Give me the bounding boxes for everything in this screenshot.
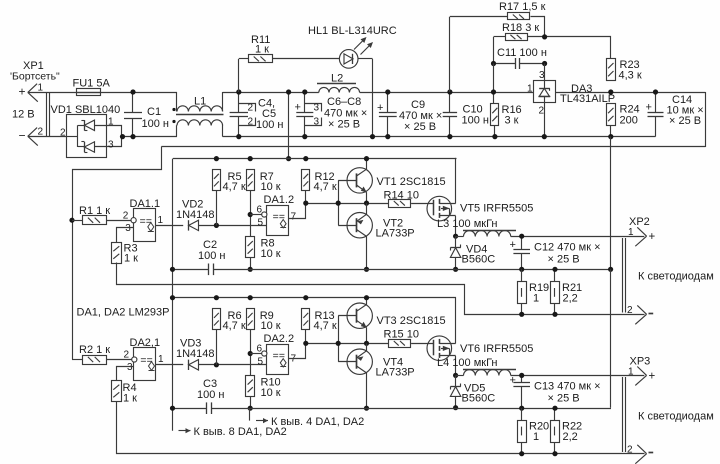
LED HL1 <box>339 50 358 69</box>
capacitor C3 <box>206 402 208 414</box>
wire R16 upper leg <box>493 64 495 104</box>
svg-text:1: 1 <box>628 227 634 238</box>
svg-text:1: 1 <box>108 117 114 128</box>
junction R10 bottom <box>248 406 253 411</box>
capacitor C6-C8 top tab <box>305 104 322 112</box>
wire R13 bottom leg <box>305 330 307 344</box>
diode VD2 <box>189 220 199 230</box>
XP3 polarity - label <box>649 452 654 454</box>
inductor L1 top winding <box>176 92 178 112</box>
XP2 pin 1 connector <box>637 227 646 236</box>
node К выв. 8 DA1, DA2 <box>179 430 191 432</box>
DA1.1 pin2 bubble <box>131 218 136 223</box>
wire VT1 emitter to node <box>366 192 368 203</box>
svg-text:К выв. 8 DA1, DA2: К выв. 8 DA1, DA2 <box>194 426 287 438</box>
resistor R17 <box>508 13 530 20</box>
wire R19 legs <box>521 269 523 281</box>
resistor R24 <box>607 104 616 126</box>
wire VD3 to DA2.2 pin5 <box>199 364 267 366</box>
transistor VT3 <box>347 303 372 328</box>
svg-text:100 н: 100 н <box>256 119 283 131</box>
capacitor C2 <box>208 264 210 276</box>
DA2.1 pin2 bubble <box>132 357 137 362</box>
op-amp DA3 body <box>534 81 556 103</box>
svg-text:2: 2 <box>248 116 254 127</box>
XP2 cable double line <box>622 238 624 313</box>
svg-text:DA1, DA2 LM293P: DA1, DA2 LM293P <box>77 307 170 319</box>
svg-text:10 к: 10 к <box>261 387 281 399</box>
inductor L1 phase dots <box>172 108 175 111</box>
svg-text:В560С: В560С <box>462 393 496 405</box>
svg-text:2: 2 <box>627 445 633 456</box>
svg-text:100 н: 100 н <box>142 118 169 130</box>
junction bus2 left <box>170 295 175 300</box>
resistor R4 <box>112 381 122 402</box>
svg-text:R17 1,5 к: R17 1,5 к <box>499 1 546 13</box>
capacitor C10 <box>449 92 451 112</box>
wire gnd line channel1 <box>172 269 209 271</box>
svg-text:LA733P: LA733P <box>376 228 415 240</box>
wire DA1.2 pin6 <box>250 214 261 216</box>
fuse FU1 <box>77 89 101 96</box>
XP2 pin 2 connector <box>637 305 646 314</box>
wire R11 to HL1 <box>272 58 339 60</box>
diode VD3 <box>189 360 199 370</box>
junction base riser 2 <box>336 341 341 346</box>
svg-text:2: 2 <box>539 106 545 117</box>
wire R22 legs <box>554 408 556 420</box>
wire top rail (L1 to L2) <box>223 92 319 94</box>
wire L3 to XP2 plus <box>511 236 645 238</box>
junction C11 right <box>542 61 547 66</box>
svg-text:+: + <box>646 102 652 114</box>
wire VD1 pin3 stub <box>78 146 84 148</box>
svg-text:VT5 IRFR5505: VT5 IRFR5505 <box>460 203 533 215</box>
wire R24 bottom leg <box>610 126 612 137</box>
wire R7 to R8 <box>250 191 252 237</box>
svg-text:3: 3 <box>314 103 320 114</box>
resistor R5 <box>213 170 221 191</box>
wire +12V bus channel1 <box>173 158 456 160</box>
junction C6 bottom <box>302 134 307 139</box>
junction R12 top <box>303 156 308 161</box>
svg-text:4,7 к: 4,7 к <box>223 181 246 193</box>
svg-text:2,2: 2,2 <box>563 293 578 305</box>
svg-text:1: 1 <box>38 83 44 94</box>
wire VT2 emitter up <box>366 203 368 214</box>
DA2.2 output mark <box>280 359 286 367</box>
svg-text:1: 1 <box>158 354 164 365</box>
wire VT3 collector <box>366 298 368 305</box>
wire VT3-VT4 base riser <box>338 316 340 362</box>
junction R5 top <box>214 156 219 161</box>
resistor R21 <box>551 282 560 304</box>
junction VD4 anode <box>453 267 458 272</box>
svg-text:+: + <box>510 375 516 387</box>
wire R16 bottom leg <box>494 126 496 137</box>
svg-text:3: 3 <box>108 140 114 151</box>
svg-text:10 к: 10 к <box>261 248 281 260</box>
inductor L1 bottom winding <box>176 125 178 136</box>
wire DA2.1 output <box>156 364 183 366</box>
resistor R22 <box>551 421 560 443</box>
LED HL1 light arrows <box>354 39 365 50</box>
svg-text:1: 1 <box>533 431 539 443</box>
junction R20 bottom <box>519 451 524 456</box>
svg-text:× 25 В: × 25 В <box>328 119 360 131</box>
junction R9-R10 pin6 <box>248 351 253 356</box>
svg-text:6: 6 <box>257 344 263 355</box>
junction R17-R18 <box>542 34 547 39</box>
junction C12 bottom <box>519 267 524 272</box>
svg-text:С6–С8: С6–С8 <box>327 96 361 108</box>
inductor L2 core bar <box>317 83 356 85</box>
svg-text:L4 100 мкГн: L4 100 мкГн <box>437 357 498 369</box>
svg-text:FU1 5A: FU1 5A <box>73 78 111 90</box>
svg-text:HL1 BL-L314URC: HL1 BL-L314URC <box>308 25 397 37</box>
XP2 polarity - label <box>649 313 654 315</box>
wire sense right edge <box>705 92 707 147</box>
junction C4 bottom <box>236 134 241 139</box>
svg-text:==: == <box>140 356 153 368</box>
svg-text:==: == <box>140 216 153 228</box>
resistor R23 <box>607 59 616 81</box>
wire VT1 collector <box>366 159 368 170</box>
resistor R9 <box>247 309 255 330</box>
wire DA1.2 pin7 stub <box>289 204 306 219</box>
junction R1 tap <box>69 218 74 223</box>
wire R10 bottom leg <box>250 396 252 408</box>
wire R4 bottom to XP3 return <box>117 402 645 454</box>
resistor R7 <box>247 170 255 191</box>
junction gnd2-x172.5 <box>170 406 175 411</box>
resistor R14 <box>389 200 411 208</box>
wire gnd riser lower <box>610 269 612 407</box>
wire HL1 cathode down <box>358 58 373 60</box>
XP3 cable double line <box>622 377 624 452</box>
svg-text:10 к: 10 к <box>261 181 281 193</box>
wire VD5 anode leg <box>455 396 457 407</box>
transistor VT4 <box>347 349 372 374</box>
wire DA2.2 pin7 stub <box>289 344 306 359</box>
resistor R2 <box>83 356 107 365</box>
transistor VT6 <box>427 336 452 361</box>
wire VT3 emitter to node <box>366 328 368 344</box>
svg-text:3: 3 <box>314 116 320 127</box>
svg-text:−: − <box>19 129 26 143</box>
wire R1 left leg <box>72 220 83 222</box>
inductor L2 winding <box>319 87 360 92</box>
svg-text:C1: C1 <box>147 106 161 118</box>
resistor R1 <box>83 216 107 225</box>
svg-text:100 н: 100 н <box>197 389 224 401</box>
svg-text:1 к: 1 к <box>123 393 137 405</box>
capacitor C1 <box>132 92 134 112</box>
svg-text:VT1 2SC1815: VT1 2SC1815 <box>377 176 446 188</box>
wire top rail (DA3 right to corner) <box>555 92 706 94</box>
wire R12 bottom leg <box>305 191 307 204</box>
wire VT2 collector down <box>366 236 368 269</box>
op-amp DA2.2 body <box>267 345 289 375</box>
svg-text:4,7 к: 4,7 к <box>223 320 246 332</box>
diode VD1.2 (lower) <box>84 142 94 152</box>
svg-text:3 к: 3 к <box>505 115 519 127</box>
junction R21 top <box>552 267 557 272</box>
svg-text:× 25 В: × 25 В <box>669 115 701 127</box>
DA1.1 output mark <box>148 223 154 232</box>
junction R13-pin7 node <box>303 341 308 346</box>
svg-text:VT6 IRFR5505: VT6 IRFR5505 <box>460 343 533 355</box>
svg-text:4,3 к: 4,3 к <box>619 70 642 82</box>
svg-text:100 н: 100 н <box>198 250 225 262</box>
svg-text:12 В: 12 В <box>12 109 35 121</box>
svg-text:1: 1 <box>628 367 634 378</box>
wire VD1 pin2 entry <box>67 136 78 138</box>
DA2.1 output mark <box>149 362 155 371</box>
wire R18 right to R23 <box>528 37 611 59</box>
junction R23 bottom <box>608 89 613 94</box>
diode VD5 schottky <box>455 375 457 386</box>
svg-text:В560С: В560С <box>462 254 496 266</box>
svg-text:1: 1 <box>158 215 164 226</box>
svg-text:+: + <box>295 102 301 114</box>
svg-text:2: 2 <box>38 127 44 138</box>
svg-text:2: 2 <box>60 127 66 138</box>
svg-text:× 25 В: × 25 В <box>404 121 436 133</box>
svg-text:DA1.2: DA1.2 <box>264 194 295 206</box>
wire minus rail (XP1 to VD1) <box>28 136 67 138</box>
wire minus rail (VD1 out to L1) <box>123 136 178 138</box>
svg-text:2: 2 <box>124 350 130 361</box>
junction R7-R8 pin6 <box>248 212 253 217</box>
junction C10 bottom <box>447 134 452 139</box>
junction C10 top <box>447 89 452 94</box>
svg-text:7: 7 <box>291 212 297 223</box>
junction emitters node 2 <box>364 341 369 346</box>
svg-text:5: 5 <box>258 218 264 229</box>
svg-text:C12 470 мк ×: C12 470 мк × <box>534 242 601 254</box>
wire L4 to XP3 plus <box>511 375 645 377</box>
wire +12V top rail (XP1 to L1) <box>28 92 177 94</box>
resistor R16 <box>491 104 499 126</box>
svg-text:+: + <box>649 371 656 383</box>
resistor R8 <box>246 237 255 258</box>
svg-text:R18 3 к: R18 3 к <box>502 22 539 34</box>
junction R22 top <box>552 406 557 411</box>
wire R17 left leg <box>449 17 451 92</box>
transistor VT2 <box>347 213 372 238</box>
inductor L3 core bar <box>463 230 516 232</box>
junction DA3 pin2 minus rail <box>542 134 547 139</box>
junction C6 top <box>302 89 307 94</box>
capacitor C4 C5 <box>238 92 240 112</box>
resistor R18 <box>506 34 528 41</box>
svg-text:R15 10: R15 10 <box>384 329 419 341</box>
svg-text:3: 3 <box>539 70 545 81</box>
capacitor C4 C5 bottom tab <box>239 118 256 126</box>
junction R5 bottom <box>214 223 219 228</box>
svg-text:2: 2 <box>248 103 254 114</box>
wire L3 left stub <box>456 236 464 238</box>
node К выв. 4 DA1, DA2 <box>249 408 251 420</box>
svg-text:3: 3 <box>125 223 131 234</box>
wire sense horizontal y147 <box>161 146 705 148</box>
capacitor C14 <box>655 92 657 112</box>
wire R15 to VT6 gate <box>411 343 434 345</box>
diode VD1.1 (upper) <box>84 120 94 130</box>
svg-text:1 к: 1 к <box>255 44 269 56</box>
svg-text:4,7 к: 4,7 к <box>314 320 337 332</box>
wire R2 to DA2.1 pin2 <box>107 359 132 361</box>
junction R24 bottom <box>608 134 613 139</box>
junction VT6 drain node <box>453 373 458 378</box>
svg-text:1N4148: 1N4148 <box>176 348 215 360</box>
svg-text:VT3 2SC1815: VT3 2SC1815 <box>377 315 446 327</box>
junction R8 bottom <box>248 267 253 272</box>
junction R19 bottom <box>519 312 524 317</box>
wire +12V bus channel2 <box>173 297 454 299</box>
wire gnd line channel2 <box>172 408 207 410</box>
junction C9 top <box>385 89 390 94</box>
junction VT1 collector bus <box>364 156 369 161</box>
junction C11 left <box>491 61 496 66</box>
wire R20 legs <box>521 408 523 420</box>
junction R6 top <box>214 295 219 300</box>
junction R21 bottom <box>552 312 557 317</box>
svg-text:+: + <box>649 231 656 243</box>
junction feed top <box>286 89 291 94</box>
svg-text:1: 1 <box>527 84 533 95</box>
wire VT5 source from bus <box>456 159 457 204</box>
op-amp DA1.2 body <box>267 206 289 236</box>
wire DA3 pin2 leg <box>544 103 546 137</box>
junction C4 top <box>236 89 241 94</box>
inductor L4 winding <box>464 370 511 376</box>
wire +12V feed to comparator bus <box>288 92 290 159</box>
wire R1 to DA1.1 pin2 <box>107 220 132 222</box>
svg-text:L3 100 мкГн: L3 100 мкГн <box>437 218 498 230</box>
resistor R6 <box>213 309 221 330</box>
wire R18 left leg <box>493 37 495 64</box>
junction base riser <box>336 201 341 206</box>
svg-text:LA733P: LA733P <box>376 367 415 379</box>
junction R16 rail <box>491 89 496 94</box>
XP1 cable double line <box>46 92 48 136</box>
resistor R19 <box>518 282 527 304</box>
junction R7 top <box>248 156 253 161</box>
op-amp DA2.1 body <box>134 348 156 381</box>
svg-text:× 25 В: × 25 В <box>548 393 580 405</box>
wire VT4 emitter up <box>366 343 368 351</box>
wire R8 bottom leg <box>250 258 252 269</box>
junction HL1 to minus rail <box>370 134 375 139</box>
inductor L3 winding <box>464 231 511 237</box>
XP3 pin 1 connector <box>637 367 646 376</box>
resistor R13 <box>302 309 310 330</box>
svg-text:C11 100 н: C11 100 н <box>497 47 547 59</box>
junction VD5 anode <box>453 405 458 410</box>
op-amp DA1.1 body <box>134 209 156 242</box>
XP3 pin 2 connector <box>637 445 646 454</box>
capacitor C4 C5 top tab <box>239 104 256 112</box>
resistor R3 <box>112 243 122 264</box>
capacitor C12 <box>521 236 523 250</box>
svg-text:3: 3 <box>127 362 133 373</box>
svg-text:C13 470 мк ×: C13 470 мк × <box>534 381 601 393</box>
svg-text:К светодиодам: К светодиодам <box>638 271 714 283</box>
svg-text:L2: L2 <box>331 73 343 85</box>
svg-text:К светодиодам: К светодиодам <box>638 411 714 423</box>
DA2.2 pin6 bubble <box>262 351 267 356</box>
diode VD1 body box <box>67 115 107 158</box>
DA1.2 output mark <box>280 220 286 228</box>
capacitor C11 <box>494 63 516 65</box>
diode VD4 schottky <box>455 236 457 247</box>
wire DA1.1 output <box>155 225 183 227</box>
resistor R12 <box>302 170 310 191</box>
svg-text:100 н: 100 н <box>462 115 489 127</box>
resistor R10 <box>246 376 255 397</box>
resistor R11 <box>249 55 273 63</box>
svg-text:==: == <box>273 212 286 224</box>
junction emitters node <box>364 201 369 206</box>
wire VT6 source from bus <box>454 298 456 344</box>
svg-text:6: 6 <box>257 205 263 216</box>
wire R6 bottom leg <box>216 330 218 365</box>
wire VT5 drain to L3 <box>455 216 457 236</box>
svg-text:4,7 к: 4,7 к <box>314 181 337 193</box>
wire R5 bottom leg <box>216 191 218 226</box>
svg-text:R2 1 к: R2 1 к <box>79 344 110 356</box>
junction C9 bottom <box>385 134 390 139</box>
junction C13 bottom <box>519 406 524 411</box>
junction VD1 output <box>120 134 125 139</box>
junction feed bottom <box>286 156 291 161</box>
svg-text:1N4148: 1N4148 <box>176 209 215 221</box>
junction C1 bottom <box>130 134 135 139</box>
svg-text:200: 200 <box>620 115 638 127</box>
wire R17 right to R18 node <box>531 17 545 37</box>
transistor VT1 <box>347 168 372 193</box>
junction C1 top <box>130 89 135 94</box>
wire VD4 anode leg <box>455 257 457 269</box>
junction R9 top <box>248 295 253 300</box>
junction gnd-x172.5 <box>170 267 175 272</box>
junction C14 top <box>653 89 658 94</box>
svg-text:+: + <box>19 85 26 99</box>
wire VT4 collector down <box>366 373 368 408</box>
wire R11 left leg <box>238 59 240 92</box>
junction R6 bottom <box>214 362 219 367</box>
junction C13 top <box>519 373 524 378</box>
wire DA3 pin3 leg <box>544 64 546 81</box>
capacitor C6-C8 <box>304 92 306 112</box>
wire R21 legs <box>554 269 556 281</box>
wire top rail (L2 to DA3 pin1) <box>360 92 534 94</box>
svg-text:'Бортсеть": 'Бортсеть" <box>10 70 60 82</box>
wire gnd to main rail riser x611 <box>610 137 612 270</box>
svg-text:5: 5 <box>258 357 264 368</box>
XP1 pin 1 connector <box>28 84 37 93</box>
wire R9 to R10 <box>250 330 252 376</box>
svg-text:2,2: 2,2 <box>563 431 578 443</box>
wire DA2.2 pin6 <box>250 353 261 355</box>
DA1.2 pin6 bubble <box>262 212 267 217</box>
junction R22 bottom <box>552 451 557 456</box>
wire VD2 to DA1.2 pin5 <box>199 225 267 227</box>
wire channel1 bus drop x172.5 <box>172 159 174 431</box>
svg-text:2: 2 <box>123 210 129 221</box>
